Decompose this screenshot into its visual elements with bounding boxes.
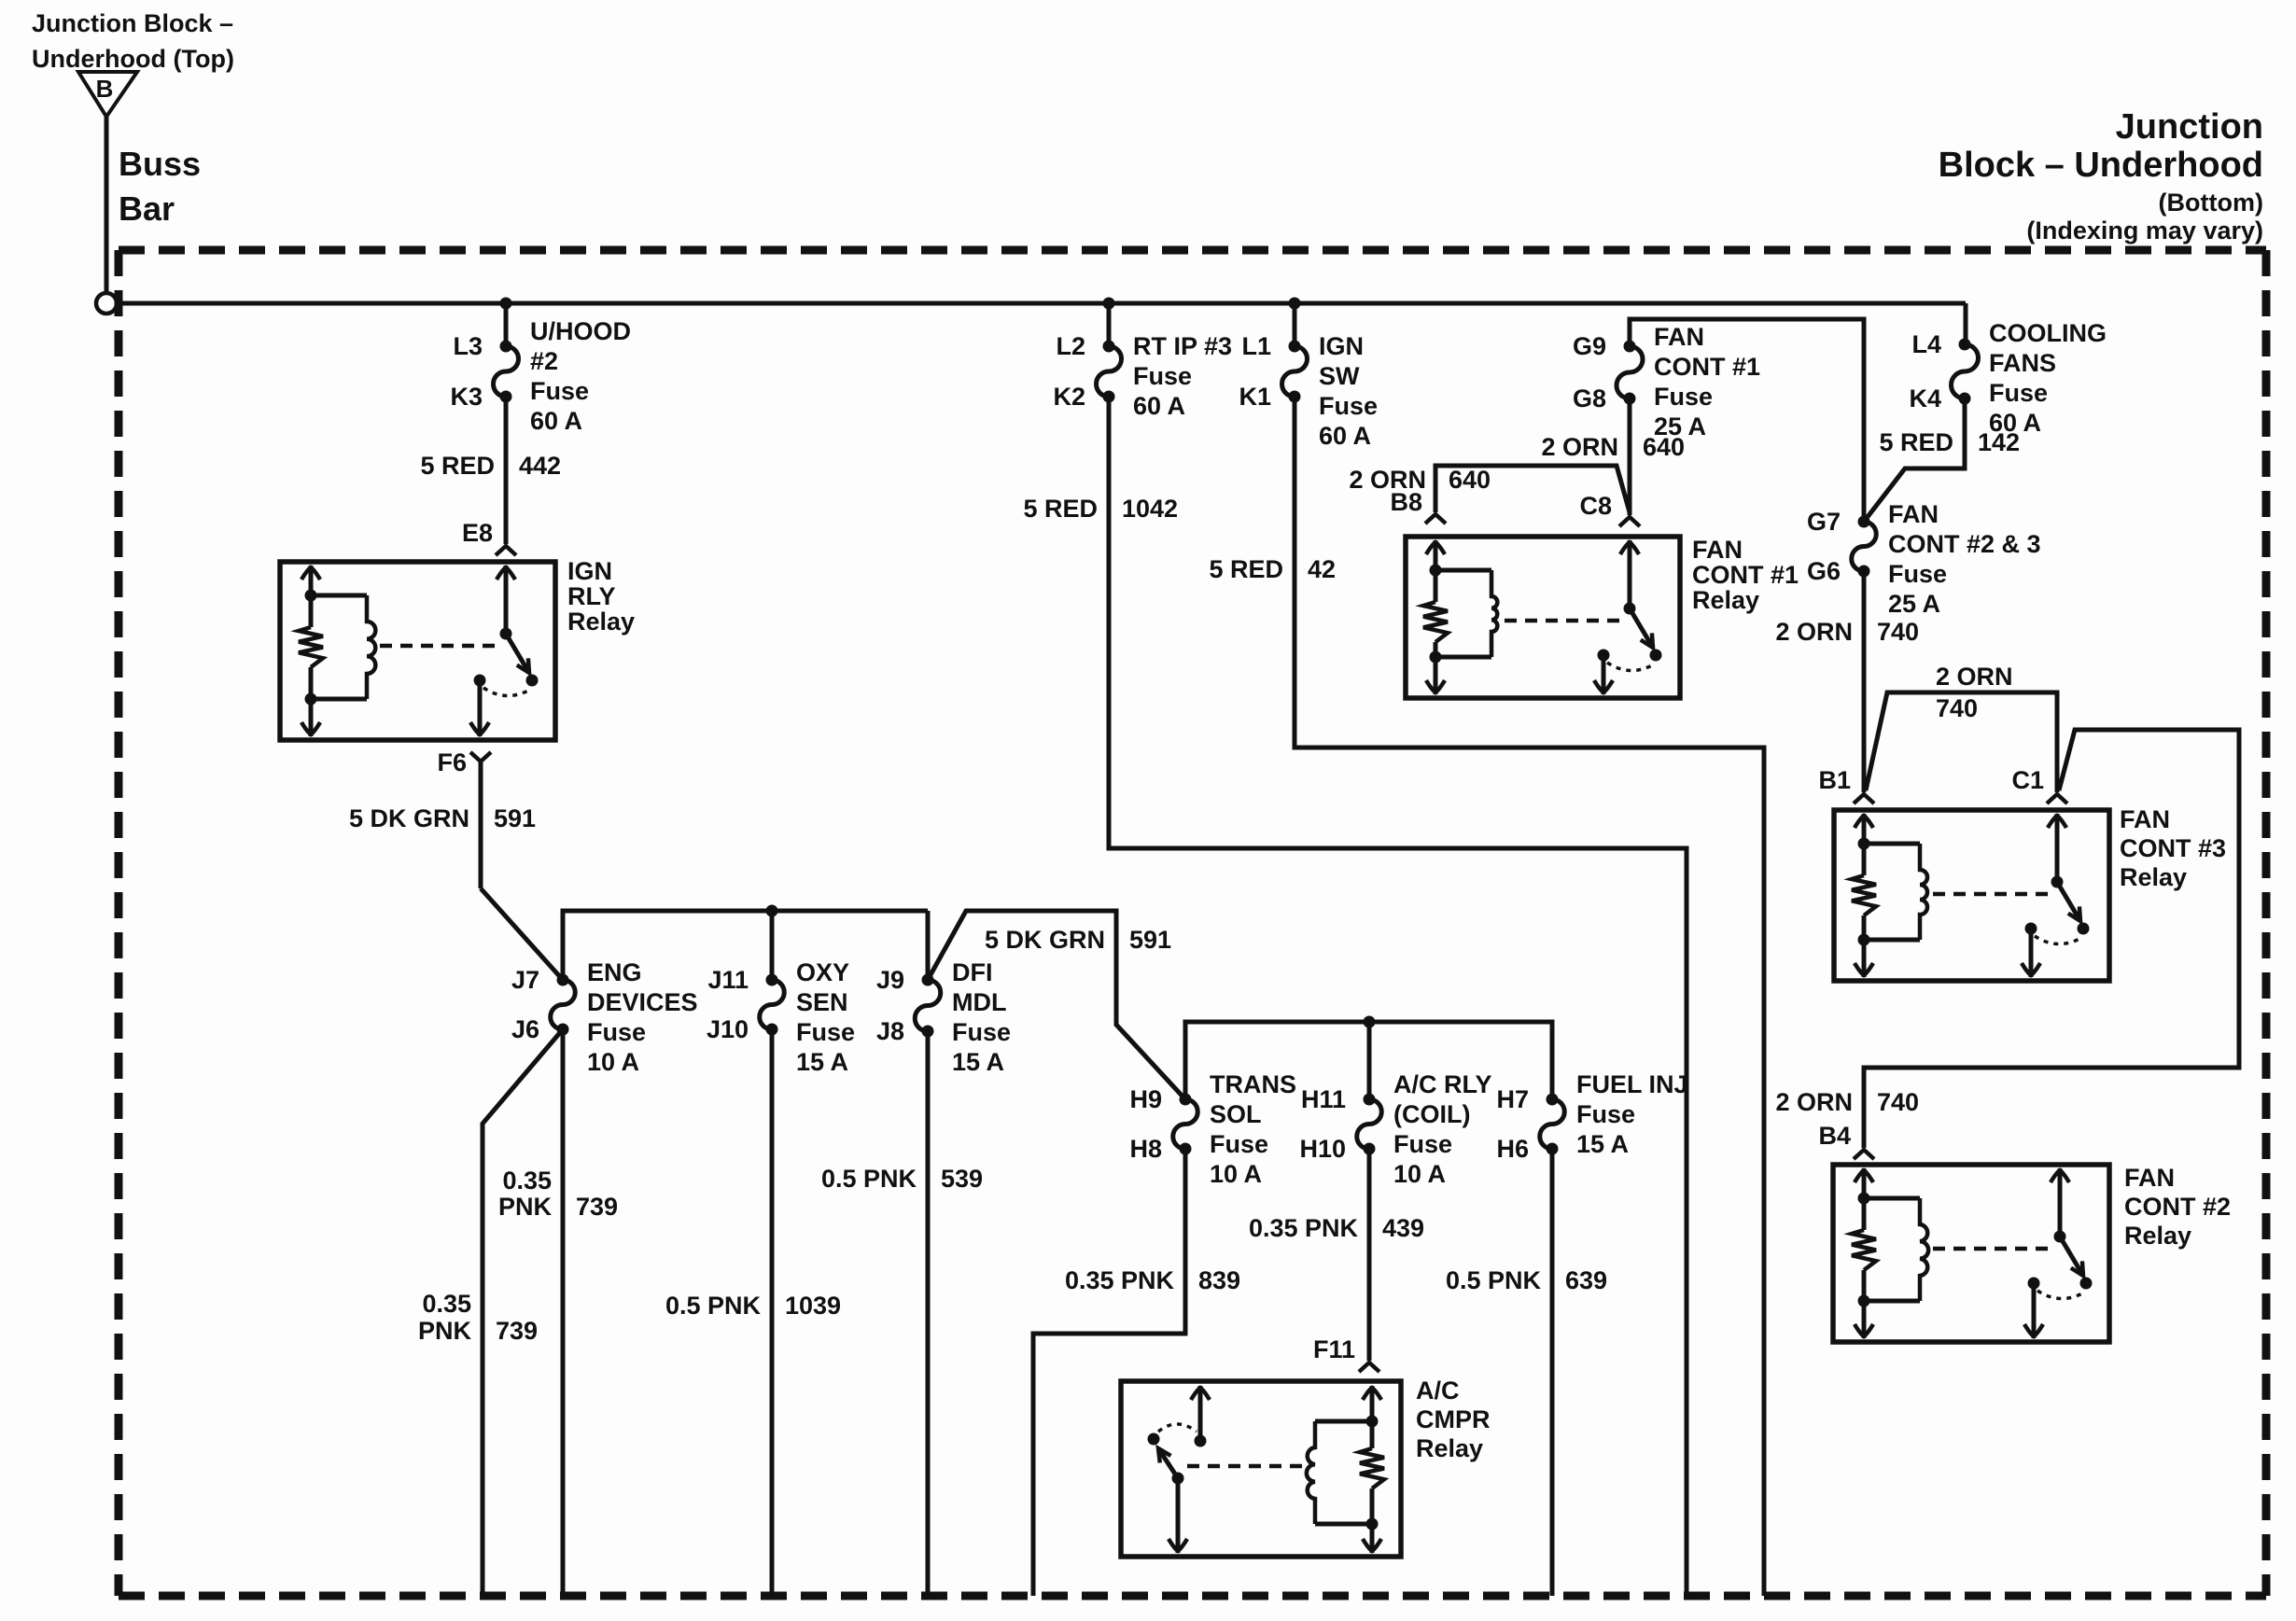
wire from connector B to buss bar: [105, 117, 109, 294]
svg-text:740: 740: [1877, 618, 1919, 646]
label A/C CMPR Relay: [1416, 1376, 1491, 1462]
svg-text:142: 142: [1978, 428, 2020, 456]
connector B1: [1818, 766, 1874, 804]
wire fuse J6 down (0.35 PNK 739 right): [561, 1029, 566, 1596]
wire fuse G9 to fuse G7 top link: [1630, 319, 1864, 522]
svg-text:5 RED: 5 RED: [1879, 428, 1953, 456]
svg-text:J11: J11: [707, 966, 749, 994]
svg-text:H9: H9: [1129, 1085, 1162, 1113]
svg-text:G7: G7: [1807, 508, 1841, 536]
svg-text:A/C: A/C: [1416, 1376, 1460, 1404]
svg-text:FUEL INJ: FUEL INJ: [1576, 1070, 1688, 1098]
label FAN CONT #2 Relay: [2124, 1164, 2231, 1250]
svg-text:2 ORN: 2 ORN: [1541, 433, 1618, 461]
svg-text:5 RED: 5 RED: [1023, 495, 1098, 523]
svg-text:Fuse: Fuse: [587, 1018, 646, 1046]
label wire 5 RED 142: [1879, 428, 2020, 456]
fuse COOLING FANS 60A (pins L4/K4): [1909, 319, 2107, 437]
svg-text:5 DK GRN: 5 DK GRN: [985, 926, 1105, 954]
svg-text:H8: H8: [1129, 1135, 1162, 1163]
label FAN CONT #1 Relay: [1692, 536, 1799, 614]
svg-text:FAN: FAN: [1654, 323, 1704, 351]
svg-text:60 A: 60 A: [1133, 392, 1185, 420]
svg-text:0.35: 0.35: [502, 1167, 552, 1195]
label wire 5 RED 42: [1209, 555, 1336, 583]
svg-text:10 A: 10 A: [1210, 1160, 1262, 1188]
svg-text:1042: 1042: [1122, 495, 1178, 523]
svg-text:U/HOOD: U/HOOD: [530, 317, 631, 345]
label wire 2 ORN 640 (at G8): [1541, 433, 1685, 461]
node junction H rail / H11: [1364, 1016, 1376, 1028]
svg-text:B4: B4: [1818, 1122, 1851, 1150]
svg-text:F11: F11: [1313, 1335, 1355, 1363]
svg-text:C8: C8: [1579, 492, 1612, 520]
wire F6 to fuse J7 (5 DK GRN 591): [481, 762, 563, 980]
wire fuse K1 down and right (5 RED 42): [1295, 397, 1764, 1596]
svg-text:L4: L4: [1911, 330, 1941, 358]
svg-text:G8: G8: [1573, 384, 1606, 412]
fuse ENG DEVICES 10A (pins J7/J6): [511, 958, 698, 1076]
svg-text:L2: L2: [1056, 332, 1085, 360]
svg-text:1039: 1039: [785, 1292, 841, 1320]
label Junction Block - Underhood (Top): [32, 9, 234, 73]
svg-text:COOLING: COOLING: [1989, 319, 2107, 347]
svg-text:J7: J7: [511, 966, 539, 994]
label IGN RLY Relay: [567, 557, 635, 636]
label wire 0.5 PNK 639: [1446, 1266, 1607, 1294]
svg-text:Relay: Relay: [1416, 1434, 1483, 1462]
svg-text:FAN: FAN: [2124, 1164, 2175, 1192]
svg-text:IGN: IGN: [567, 557, 612, 585]
svg-text:K2: K2: [1053, 383, 1085, 411]
svg-text:5 RED: 5 RED: [420, 452, 495, 480]
fuse OXY SEN 15A (pins J11/J10): [707, 958, 855, 1076]
wire fuse J6 diagonal down (0.35 PNK 739 left): [483, 1029, 563, 1596]
svg-text:0.35 PNK: 0.35 PNK: [1065, 1266, 1175, 1294]
wire bus to fuse L2: [1107, 303, 1112, 346]
svg-text:H11: H11: [1301, 1085, 1346, 1113]
svg-text:2 ORN: 2 ORN: [1775, 1088, 1853, 1116]
fuse IGN SW 60A (pins L1/K1): [1239, 332, 1378, 450]
label wire 2 ORN 740 (at B4): [1775, 1088, 1919, 1116]
label wire 0.5 PNK 1039: [665, 1292, 841, 1320]
label wire 2 ORN 640 (at B8): [1349, 466, 1491, 494]
svg-text:Relay: Relay: [2124, 1222, 2191, 1250]
svg-text:J6: J6: [511, 1015, 539, 1043]
svg-text:739: 739: [576, 1193, 618, 1221]
wire bus to fuse L1: [1293, 303, 1297, 346]
svg-text:PNK: PNK: [418, 1317, 472, 1345]
fuse TRANS SOL 10A (pins H9/H8): [1129, 1070, 1296, 1188]
junction block boundary (dashed): [119, 250, 2266, 1596]
svg-text:CONT #3: CONT #3: [2120, 834, 2226, 862]
svg-text:Fuse: Fuse: [796, 1018, 855, 1046]
node buss bar terminal circle: [96, 293, 117, 314]
wire buss bar feed (main bus): [116, 303, 1966, 344]
svg-text:#2: #2: [530, 347, 558, 375]
svg-text:Buss: Buss: [119, 145, 201, 183]
relay FAN CONT #3: [1834, 810, 2109, 981]
svg-text:CONT #1: CONT #1: [1654, 353, 1760, 381]
fuse FAN CONT #2 & 3 25A (pins G7/G6): [1807, 500, 2041, 618]
svg-text:Fuse: Fuse: [1989, 379, 2048, 407]
svg-text:B1: B1: [1818, 766, 1851, 794]
fuse A/C RLY (COIL) 10A (pins H11/H10): [1299, 1070, 1491, 1188]
svg-text:25 A: 25 A: [1888, 590, 1940, 618]
svg-text:H10: H10: [1299, 1135, 1346, 1163]
connector B triangle (to Junction Block - Underhood Top): [78, 72, 137, 117]
wire fuse K3 to connector E8 (5 RED 442): [504, 397, 509, 544]
relay FAN CONT #2: [1833, 1165, 2109, 1342]
label wire 0.35 PNK 739 (right): [498, 1167, 618, 1221]
svg-text:K4: K4: [1909, 384, 1941, 412]
svg-text:740: 740: [1877, 1088, 1919, 1116]
connector F6: [437, 748, 491, 776]
svg-text:L3: L3: [453, 332, 483, 360]
label wire 5 RED 1042: [1023, 495, 1178, 523]
svg-text:RT IP #3: RT IP #3: [1133, 332, 1232, 360]
label wire 5 DK GRN 591 (lower): [985, 926, 1171, 954]
svg-text:Fuse: Fuse: [1210, 1130, 1268, 1158]
wire connector B1 to connector C1 (2 ORN 740): [1866, 692, 2057, 792]
svg-text:Relay: Relay: [567, 608, 635, 636]
wire J rail to J9: [926, 911, 931, 980]
fuse RT IP #3 60A (pins L2/K2): [1053, 332, 1232, 420]
fuse DFI MDL 15A (pins J9/J8): [876, 958, 1011, 1076]
svg-text:DEVICES: DEVICES: [587, 988, 698, 1016]
svg-text:0.5 PNK: 0.5 PNK: [1446, 1266, 1542, 1294]
connector E8: [462, 519, 516, 555]
connector B4: [1818, 1122, 1874, 1159]
svg-text:15 A: 15 A: [1576, 1130, 1629, 1158]
svg-text:640: 640: [1449, 466, 1491, 494]
svg-text:60 A: 60 A: [530, 407, 582, 435]
svg-text:0.5 PNK: 0.5 PNK: [665, 1292, 762, 1320]
svg-text:FANS: FANS: [1989, 349, 2056, 377]
svg-text:Fuse: Fuse: [1133, 362, 1192, 390]
svg-text:(Indexing may vary): (Indexing may vary): [2026, 217, 2263, 245]
svg-text:F6: F6: [437, 748, 467, 776]
svg-text:H6: H6: [1496, 1135, 1529, 1163]
svg-text:L1: L1: [1241, 332, 1271, 360]
svg-text:SEN: SEN: [796, 988, 848, 1016]
label wire 0.35 PNK 439: [1249, 1214, 1424, 1242]
svg-text:Fuse: Fuse: [1654, 383, 1713, 411]
svg-text:K1: K1: [1239, 383, 1271, 411]
svg-text:Block – Underhood: Block – Underhood: [1939, 146, 2263, 185]
label Junction Block - Underhood (Bottom): [1939, 107, 2263, 245]
svg-text:Underhood (Top): Underhood (Top): [32, 45, 234, 73]
svg-text:J9: J9: [876, 966, 904, 994]
svg-text:G6: G6: [1807, 557, 1841, 585]
svg-text:FAN: FAN: [1888, 500, 1939, 528]
label Buss Bar: [119, 145, 201, 228]
svg-text:DFI: DFI: [952, 958, 993, 986]
svg-text:TRANS: TRANS: [1210, 1070, 1296, 1098]
fuse U/HOOD #2 60A (pins L3/K3): [450, 317, 631, 435]
wire fuse K4 to fuse G7 (5 RED 142): [1864, 398, 1965, 522]
wire fuse J8 down (0.5 PNK 539): [926, 1031, 931, 1596]
svg-text:839: 839: [1198, 1266, 1240, 1294]
svg-text:E8: E8: [462, 519, 493, 547]
svg-text:Fuse: Fuse: [1576, 1100, 1635, 1128]
svg-text:Fuse: Fuse: [1319, 392, 1378, 420]
svg-text:B: B: [96, 75, 114, 103]
label wire 2 ORN 740 (loop): [1936, 663, 2013, 722]
svg-text:0.5 PNK: 0.5 PNK: [821, 1165, 917, 1193]
svg-text:740: 740: [1936, 694, 1978, 722]
svg-text:SW: SW: [1319, 362, 1360, 390]
svg-text:SOL: SOL: [1210, 1100, 1262, 1128]
svg-text:CONT #2: CONT #2: [2124, 1193, 2231, 1221]
connector C8: [1579, 492, 1640, 526]
wire fuse G6 to connector B1 (2 ORN 740): [1862, 571, 1867, 792]
svg-text:5 DK GRN: 5 DK GRN: [349, 804, 469, 832]
svg-text:H7: H7: [1496, 1085, 1529, 1113]
svg-text:CMPR: CMPR: [1416, 1405, 1491, 1433]
svg-text:Relay: Relay: [2120, 863, 2187, 891]
node junction bus-L2: [1103, 298, 1115, 310]
svg-text:10 A: 10 A: [587, 1048, 639, 1076]
svg-text:OXY: OXY: [796, 958, 849, 986]
fuse FAN CONT #1 25A (pins G9/G8): [1573, 323, 1760, 440]
svg-text:60 A: 60 A: [1319, 422, 1371, 450]
svg-text:2 ORN: 2 ORN: [1936, 663, 2013, 691]
svg-text:IGN: IGN: [1319, 332, 1364, 360]
svg-text:15 A: 15 A: [952, 1048, 1004, 1076]
svg-text:PNK: PNK: [498, 1193, 553, 1221]
connector F11: [1313, 1335, 1379, 1372]
svg-text:MDL: MDL: [952, 988, 1006, 1016]
svg-text:(Bottom): (Bottom): [2159, 189, 2263, 217]
label wire 5 DK GRN 591 (upper): [349, 804, 536, 832]
svg-text:Fuse: Fuse: [952, 1018, 1011, 1046]
svg-text:B8: B8: [1390, 488, 1422, 516]
svg-text:FAN: FAN: [2120, 805, 2170, 833]
label wire 0.35 PNK 839: [1065, 1266, 1240, 1294]
svg-text:Fuse: Fuse: [1393, 1130, 1452, 1158]
svg-text:639: 639: [1565, 1266, 1607, 1294]
relay IGN RLY: [280, 562, 555, 740]
svg-text:5 RED: 5 RED: [1209, 555, 1283, 583]
svg-text:442: 442: [519, 452, 561, 480]
wire fuse H8 down with jog (0.35 PNK 839): [1033, 1149, 1185, 1596]
svg-text:ENG: ENG: [587, 958, 642, 986]
svg-text:Junction Block –: Junction Block –: [32, 9, 233, 37]
svg-text:J10: J10: [707, 1015, 749, 1043]
svg-text:Fuse: Fuse: [1888, 560, 1947, 588]
wire H rail: [1185, 1022, 1552, 1099]
svg-text:0.35 PNK: 0.35 PNK: [1249, 1214, 1359, 1242]
svg-text:FAN: FAN: [1692, 536, 1743, 564]
svg-text:Bar: Bar: [119, 189, 175, 228]
svg-text:739: 739: [496, 1317, 538, 1345]
svg-text:640: 640: [1643, 433, 1685, 461]
wire fuse H6 down (0.5 PNK 639): [1550, 1149, 1555, 1596]
svg-text:15 A: 15 A: [796, 1048, 848, 1076]
node junction bus-L3: [500, 298, 512, 310]
svg-text:C1: C1: [2011, 766, 2044, 794]
wire branch to connector B8 (2 ORN 640): [1435, 466, 1630, 512]
svg-text:539: 539: [941, 1165, 983, 1193]
svg-text:J8: J8: [876, 1017, 904, 1045]
svg-text:(COIL): (COIL): [1393, 1100, 1470, 1128]
svg-text:439: 439: [1382, 1214, 1424, 1242]
wire fuse G8 to connector C8 (2 ORN 640): [1628, 398, 1632, 515]
label wire 2 ORN 740 (at G6): [1775, 618, 1919, 646]
svg-text:Junction: Junction: [2116, 107, 2263, 147]
svg-text:0.35: 0.35: [422, 1290, 471, 1318]
connector B8: [1390, 488, 1446, 524]
svg-text:G9: G9: [1573, 332, 1606, 360]
svg-text:10 A: 10 A: [1393, 1160, 1446, 1188]
relay FAN CONT #1: [1406, 537, 1680, 698]
wire fuse J10 down (0.5 PNK 1039): [770, 1029, 775, 1596]
svg-text:591: 591: [1129, 926, 1171, 954]
svg-text:Fuse: Fuse: [530, 377, 589, 405]
svg-text:Relay: Relay: [1692, 586, 1759, 614]
label wire 0.35 PNK 739 (left): [418, 1290, 538, 1345]
svg-text:RLY: RLY: [567, 582, 616, 610]
wire fuse K2 down and right (5 RED 1042): [1109, 397, 1687, 1596]
svg-text:CONT #2 & 3: CONT #2 & 3: [1888, 530, 2041, 558]
label FAN CONT #3 Relay: [2120, 805, 2226, 891]
svg-text:CONT #1: CONT #1: [1692, 561, 1799, 589]
wire J rail to J11: [770, 911, 775, 980]
relay A/C CMPR: [1121, 1381, 1401, 1557]
fuse FUEL INJ 15A (pins H7/H6): [1496, 1070, 1687, 1163]
wire bus to fuse L3: [504, 303, 509, 346]
svg-text:K3: K3: [450, 383, 483, 411]
wire fuse H10 to connector F11 (0.35 PNK 439): [1367, 1149, 1372, 1361]
svg-text:2 ORN: 2 ORN: [1775, 618, 1853, 646]
svg-text:591: 591: [494, 804, 536, 832]
svg-text:42: 42: [1308, 555, 1336, 583]
wire fuse J9 to H rail (5 DK GRN 591): [928, 911, 1185, 1099]
wire connector C1 to connector B4 (2 ORN 740): [1864, 730, 2239, 1148]
connector C1: [2011, 766, 2067, 804]
label wire 0.5 PNK 539: [821, 1165, 983, 1193]
label wire 5 RED 442: [420, 452, 561, 480]
node junction J rail / J11: [766, 905, 778, 917]
wire H rail to H11: [1367, 1022, 1372, 1099]
wire J rail from J7: [563, 911, 928, 980]
svg-text:A/C RLY: A/C RLY: [1393, 1070, 1492, 1098]
node junction bus-L1: [1289, 298, 1301, 310]
